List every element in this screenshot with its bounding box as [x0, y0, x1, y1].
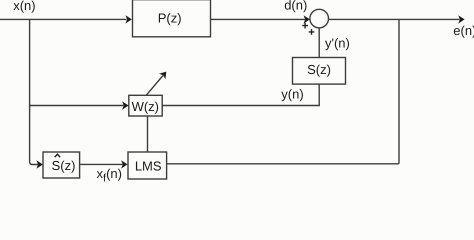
block P(z): [133, 0, 211, 37]
wire summing node to e(n): [329, 18, 460, 20]
wire left branch vertical from x(n) down to S-hat input: [30, 19, 39, 164]
svg-text:S(z): S(z): [307, 62, 331, 77]
plus sign upper (d(n) input): [302, 23, 308, 29]
wire W(z) down to LMS: [147, 116, 149, 152]
arrowhead e(n) output: [458, 15, 464, 23]
svg-text:d(n): d(n): [284, 0, 307, 13]
arrowhead into P(z): [125, 15, 131, 23]
wire S-hat to LMS: [80, 163, 123, 165]
svg-text:LMS: LMS: [135, 158, 162, 173]
node summing junction: [310, 9, 329, 28]
block S(z): [293, 58, 346, 85]
arrowhead into summing node: [304, 15, 310, 23]
arrowhead into S-hat(z): [36, 160, 42, 168]
wire y(n) from W(z) to S(z): [162, 84, 319, 105]
plus sign lower (y'(n) input): [309, 29, 315, 35]
arrowhead into LMS: [121, 160, 127, 168]
svg-text:y(n): y(n): [281, 86, 303, 101]
wire x(n) input to P(z): [0, 18, 127, 20]
block S-hat(z) secondary path estimate: [43, 152, 80, 178]
wire y'(n) from S(z) up to summing node: [318, 28, 320, 58]
adjustable-filter diagonal arrow on W(z): [146, 72, 166, 96]
block LMS: [128, 152, 167, 179]
svg-text:y'(n): y'(n): [325, 35, 350, 50]
arrowhead into W(z): [122, 101, 128, 109]
svg-text:S(z): S(z): [52, 158, 76, 173]
block W(z) adaptive filter: [129, 95, 162, 116]
svg-text:x(n): x(n): [13, 0, 35, 13]
wire e(n) feedback branch down and left to LMS: [167, 19, 399, 163]
svg-text:P(z): P(z): [158, 11, 182, 26]
svg-text:e(n): e(n): [453, 23, 474, 38]
svg-text:W(z): W(z): [132, 99, 159, 114]
wire P(z) to summing node: [211, 18, 306, 20]
wire branch to W(z) input: [30, 105, 124, 107]
